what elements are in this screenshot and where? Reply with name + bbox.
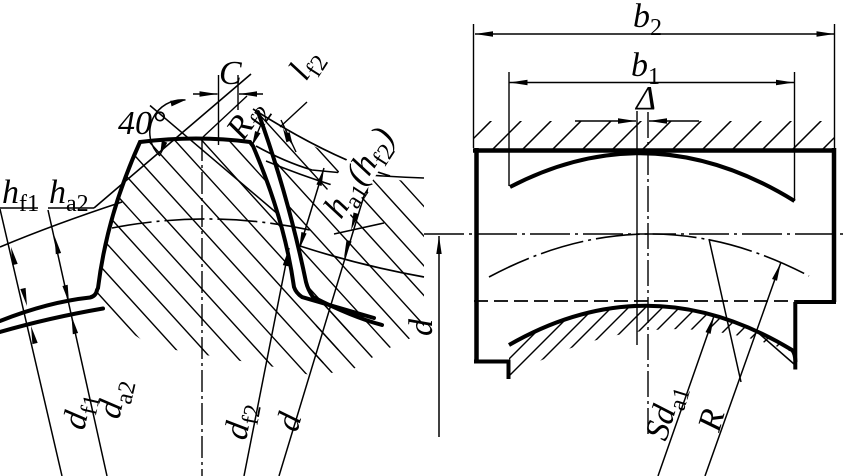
svg-text:Δ: Δ <box>634 80 656 117</box>
svg-text:40°: 40° <box>118 105 166 142</box>
svg-text:d: d <box>403 318 440 336</box>
svg-text:C: C <box>219 55 242 92</box>
